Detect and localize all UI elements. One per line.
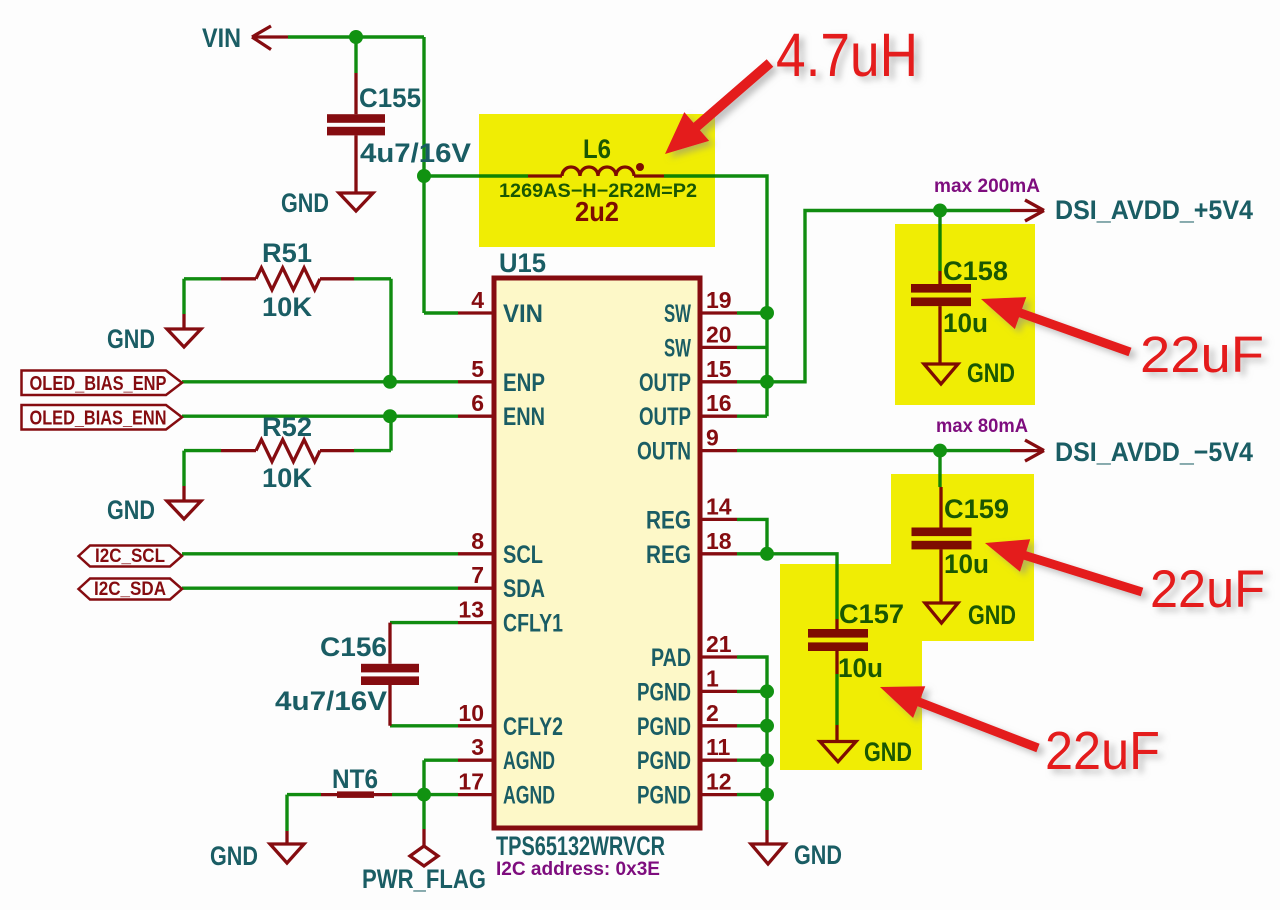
svg-text:CFLY2: CFLY2 bbox=[503, 713, 563, 741]
svg-text:NT6: NT6 bbox=[332, 764, 378, 794]
svg-text:GND: GND bbox=[281, 188, 329, 218]
svg-text:OUTP: OUTP bbox=[639, 403, 691, 431]
svg-text:6: 6 bbox=[471, 390, 484, 416]
svg-text:21: 21 bbox=[706, 631, 732, 657]
svg-text:I2C address: 0x3E: I2C address: 0x3E bbox=[496, 859, 660, 880]
svg-text:8: 8 bbox=[471, 528, 484, 554]
svg-text:GND: GND bbox=[107, 495, 155, 525]
svg-text:max 80mA: max 80mA bbox=[936, 416, 1028, 437]
svg-text:20: 20 bbox=[706, 321, 732, 347]
svg-text:13: 13 bbox=[458, 597, 484, 623]
svg-text:SCL: SCL bbox=[503, 541, 543, 569]
svg-text:REG: REG bbox=[646, 506, 691, 534]
svg-text:R51: R51 bbox=[262, 238, 312, 268]
svg-text:7: 7 bbox=[471, 562, 484, 588]
svg-text:REG: REG bbox=[646, 541, 691, 569]
svg-text:TPS65132WRVCR: TPS65132WRVCR bbox=[496, 831, 665, 861]
svg-text:19: 19 bbox=[706, 287, 732, 313]
svg-text:PWR_FLAG: PWR_FLAG bbox=[362, 864, 486, 894]
svg-text:3: 3 bbox=[471, 734, 484, 760]
svg-text:4u7/16V: 4u7/16V bbox=[360, 138, 471, 168]
svg-text:PGND: PGND bbox=[637, 782, 691, 810]
svg-text:PGND: PGND bbox=[637, 713, 691, 741]
svg-text:VIN: VIN bbox=[503, 300, 543, 328]
svg-text:C156: C156 bbox=[320, 632, 387, 662]
svg-text:OLED_BIAS_ENP: OLED_BIAS_ENP bbox=[30, 373, 167, 395]
svg-text:CFLY1: CFLY1 bbox=[503, 610, 563, 638]
svg-text:OUTN: OUTN bbox=[637, 438, 691, 466]
svg-text:OUTP: OUTP bbox=[639, 369, 691, 397]
svg-text:4: 4 bbox=[471, 287, 484, 313]
svg-text:GND: GND bbox=[107, 324, 155, 354]
svg-text:max 200mA: max 200mA bbox=[934, 176, 1040, 197]
svg-text:DSI_AVDD_+5V4: DSI_AVDD_+5V4 bbox=[1055, 195, 1253, 225]
svg-text:ENP: ENP bbox=[503, 369, 545, 397]
svg-text:R52: R52 bbox=[262, 412, 312, 442]
svg-text:22uF: 22uF bbox=[1150, 560, 1265, 619]
svg-text:PGND: PGND bbox=[637, 678, 691, 706]
svg-text:SDA: SDA bbox=[503, 575, 545, 603]
svg-text:OLED_BIAS_ENN: OLED_BIAS_ENN bbox=[30, 408, 167, 430]
svg-text:4.7uH: 4.7uH bbox=[776, 21, 918, 89]
svg-text:C155: C155 bbox=[359, 83, 421, 113]
svg-text:15: 15 bbox=[706, 356, 732, 382]
svg-text:I2C_SDA: I2C_SDA bbox=[94, 579, 166, 600]
svg-text:22uF: 22uF bbox=[1045, 721, 1160, 781]
svg-text:14: 14 bbox=[706, 493, 732, 519]
svg-text:10K: 10K bbox=[262, 292, 313, 322]
svg-text:5: 5 bbox=[471, 356, 484, 382]
svg-text:1: 1 bbox=[706, 665, 719, 691]
svg-text:17: 17 bbox=[458, 769, 484, 795]
svg-text:AGND: AGND bbox=[503, 747, 555, 775]
svg-text:I2C_SCL: I2C_SCL bbox=[95, 546, 165, 567]
svg-text:18: 18 bbox=[706, 528, 732, 554]
svg-text:10K: 10K bbox=[262, 463, 313, 493]
svg-text:U15: U15 bbox=[499, 248, 546, 278]
svg-text:2: 2 bbox=[706, 700, 719, 726]
svg-text:11: 11 bbox=[706, 734, 731, 760]
svg-text:4u7/16V: 4u7/16V bbox=[275, 686, 387, 716]
svg-text:9: 9 bbox=[706, 425, 719, 451]
svg-text:22uF: 22uF bbox=[1140, 326, 1264, 383]
svg-text:10: 10 bbox=[458, 700, 484, 726]
svg-text:AGND: AGND bbox=[503, 782, 555, 810]
svg-text:PAD: PAD bbox=[651, 644, 691, 672]
svg-text:VIN: VIN bbox=[202, 23, 241, 53]
svg-text:DSI_AVDD_−5V4: DSI_AVDD_−5V4 bbox=[1055, 437, 1253, 467]
svg-text:GND: GND bbox=[794, 840, 842, 870]
svg-text:12: 12 bbox=[706, 769, 732, 795]
svg-text:ENN: ENN bbox=[503, 403, 545, 431]
svg-text:PGND: PGND bbox=[637, 747, 691, 775]
svg-text:GND: GND bbox=[210, 841, 258, 871]
svg-text:16: 16 bbox=[706, 390, 732, 416]
svg-text:SW: SW bbox=[664, 300, 691, 328]
svg-text:SW: SW bbox=[664, 334, 691, 362]
